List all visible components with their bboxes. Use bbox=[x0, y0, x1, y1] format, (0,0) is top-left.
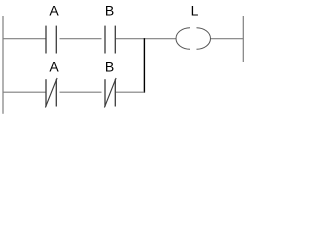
svg-text:B: B bbox=[105, 3, 114, 19]
wire rung1 coil L to right rail bbox=[210, 38, 243, 40]
contact A (NC) left plate bbox=[45, 79, 47, 106]
wire rung1 contact B to coil L bbox=[116, 38, 177, 40]
svg-text:A: A bbox=[49, 3, 59, 19]
right power rail bbox=[242, 16, 244, 62]
svg-text:L: L bbox=[191, 3, 199, 19]
coil L right arc bbox=[197, 28, 211, 50]
contact A (NC) slash bbox=[45, 78, 57, 108]
contact B (NO) right plate bbox=[114, 26, 116, 54]
contact A (NC) right plate bbox=[55, 79, 57, 106]
wire rung1 contact A to contact B bbox=[60, 38, 102, 40]
coil L left arc bbox=[176, 28, 190, 50]
wire rung2 contact B to branch bbox=[116, 91, 145, 93]
wire rung2 rail to contact A bbox=[3, 91, 46, 93]
svg-text:A: A bbox=[49, 59, 59, 75]
left power rail bbox=[2, 16, 4, 114]
branch wire (vertical, rung2 join to rung1) bbox=[143, 38, 145, 92]
contact A (NO) right plate bbox=[55, 26, 57, 54]
wire rung2 contact A to contact B bbox=[60, 91, 102, 93]
contact B (NC) right plate bbox=[114, 79, 116, 106]
contact B (NO) left plate bbox=[104, 26, 106, 54]
contact B (NC) left plate bbox=[104, 79, 106, 106]
contact B (NC) slash bbox=[104, 78, 116, 108]
wire rung1 rail to contact A bbox=[3, 38, 46, 40]
svg-text:B: B bbox=[105, 59, 114, 75]
contact A (NO) left plate bbox=[45, 26, 47, 54]
